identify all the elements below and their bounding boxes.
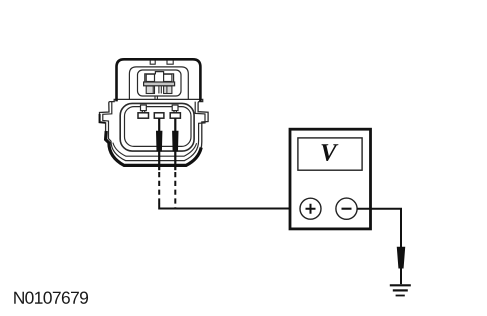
connector C1 latch collar [129,67,188,100]
dashed lead from probe P2 [174,172,176,209]
connector C1 keyway tab left [141,105,147,113]
connector C1 latch bobbin top-left cell [146,74,154,81]
ground symbol [390,285,411,295]
connector C1 latch housing outer (thick) [117,59,201,101]
connector C1 bottom shadow thick edge [106,131,202,165]
connector C1 keyway tab right [172,105,178,113]
connector C1 latch housing mold slot 2 [167,60,173,64]
test probe P2 in terminal 3 [173,118,178,170]
part number label N0107679 [14,292,88,304]
connector C1 latch frame [138,70,182,96]
connector C1 terminal slot 3 [170,113,180,118]
connector C1 latch bobbin top-right cell [164,74,172,81]
ground lead wire [400,268,402,284]
connector C1 latch bobbin cell ridges [153,86,167,94]
test probe P1 in terminal 2 [157,118,162,170]
voltmeter U1 case [290,129,371,229]
voltmeter V label [322,144,339,161]
voltmeter display window [298,138,362,170]
connector C1 body inner contour [103,102,205,161]
connector C1 latch bobbin bottom-right cell [164,86,172,94]
dashed lead from probe P1 [158,172,160,204]
connector C1 terminal slot 1 [138,113,149,118]
wire from voltmeter minus terminal to ground [357,209,401,248]
connector C1 terminal slot 2 [154,113,164,118]
connector C1 latch frame bottom tab [155,96,157,99]
voltmeter plus terminal [300,198,321,219]
connector C1 body outer contour [100,99,209,165]
connector C1 left ear shadow [100,114,106,123]
connector C1 latch housing mold slot 1 [150,60,155,64]
connector C1 latch bobbin envelope [145,72,174,84]
ground test probe P3 [397,247,404,268]
wire from leads to voltmeter plus terminal [159,204,301,209]
connector C1 terminal cavity outer wall [120,103,194,151]
connector C1 latch bobbin bottom-left cell [146,86,154,94]
connector C1 terminal cavity inner wall [125,107,192,147]
connector C1 latch bobbin middle band [144,82,175,86]
voltmeter minus terminal [336,198,357,219]
connector C1 latch bobbin center post [159,86,161,94]
